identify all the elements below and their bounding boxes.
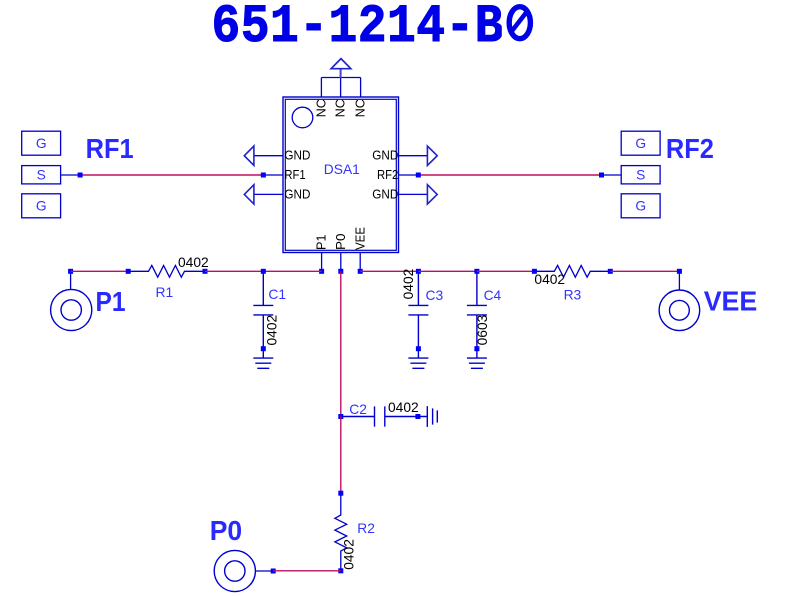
IC DSA1 attenuator body: [283, 97, 399, 253]
junction C1 bottom: [261, 346, 266, 351]
svg-text:0402: 0402: [388, 400, 419, 415]
wire RF2 net (magenta): [418, 174, 601, 176]
resistor R2: [335, 493, 347, 571]
ground right of C2: [418, 406, 437, 427]
pad S (right): [621, 166, 660, 184]
wire RF1 pin lead: [263, 174, 283, 176]
junction R3 right: [608, 269, 613, 274]
capacitor C2: [341, 406, 418, 426]
svg-text:P0: P0: [333, 234, 348, 251]
svg-text:P1: P1: [96, 286, 126, 317]
pin 1 indicator circle: [292, 107, 313, 128]
junction C3 bottom: [416, 346, 421, 351]
svg-text:RF1: RF1: [284, 167, 305, 182]
svg-text:R3: R3: [564, 287, 582, 302]
junction VEE pin: [358, 269, 363, 274]
svg-text:DSA1: DSA1: [324, 162, 360, 177]
junction R1 right: [203, 269, 208, 274]
svg-text:R2: R2: [357, 521, 375, 536]
svg-text:NC: NC: [333, 99, 348, 117]
wire VEE net segment c (magenta): [477, 270, 535, 272]
wire P1 pin stub: [321, 253, 323, 272]
pad G (left bottom): [22, 194, 61, 218]
no-connect port triangle (up): [331, 59, 351, 69]
wire RF2 pin lead: [399, 174, 419, 176]
pad S (left): [22, 166, 61, 184]
wire P1 connector stub: [70, 271, 72, 289]
wire VEE pin stub: [359, 253, 361, 272]
junction C3 top: [416, 269, 421, 274]
wire P1 net segment b (magenta): [205, 270, 263, 272]
svg-text:S: S: [37, 167, 46, 182]
junction RF2 at pin: [416, 173, 421, 178]
junction P1 connector: [68, 269, 73, 274]
svg-text:P1: P1: [314, 235, 329, 251]
svg-text:NC: NC: [313, 99, 328, 117]
resistor R1: [128, 265, 205, 277]
junction P1 pin: [319, 269, 324, 274]
svg-text:VEE: VEE: [704, 286, 758, 317]
svg-text:C1: C1: [268, 287, 286, 302]
junction RF2 at S pad: [599, 173, 604, 178]
connector VEE: [659, 290, 700, 331]
svg-text:651-1214-B0: 651-1214-B0: [212, 0, 534, 58]
ground below C3: [408, 349, 428, 369]
wire RF1 net (magenta): [80, 174, 263, 176]
ground below C4: [467, 349, 487, 369]
wire P0 pin stub: [340, 253, 342, 272]
svg-text:0603: 0603: [475, 314, 490, 345]
junction P0 pin: [338, 269, 343, 274]
svg-text:G: G: [635, 199, 646, 214]
wire VEE net segment d (magenta): [610, 270, 679, 272]
junction C2 right: [415, 414, 420, 419]
svg-text:VEE: VEE: [352, 227, 367, 250]
wire VEE net segment a (magenta): [360, 270, 418, 272]
junction RF1 at S pad: [78, 173, 83, 178]
wire S pad right stub: [602, 174, 622, 176]
svg-text:RF1: RF1: [86, 133, 134, 164]
wire P0 net vertical b (magenta): [340, 417, 342, 494]
svg-text:0402: 0402: [265, 315, 280, 346]
svg-text:0402: 0402: [534, 272, 565, 287]
svg-text:C2: C2: [349, 402, 367, 417]
svg-text:RF2: RF2: [666, 133, 714, 164]
svg-text:GND: GND: [372, 148, 398, 163]
wire P0 net vertical a (magenta): [340, 271, 342, 416]
junction VEE connector: [677, 269, 682, 274]
junction C4 bottom: [474, 346, 479, 351]
svg-text:0402: 0402: [341, 539, 356, 570]
wire GND pin lead right-bottom: [399, 193, 428, 195]
junction P0 connector: [271, 569, 276, 574]
wire P1 net segment a (magenta): [71, 270, 129, 272]
pad G (right top): [621, 131, 660, 155]
resistor R3: [534, 265, 610, 277]
wire S pad left stub: [61, 174, 81, 176]
title 651-1214-B0: [212, 0, 534, 58]
junction C4 top: [474, 269, 479, 274]
connector P0: [214, 550, 255, 591]
svg-text:GND: GND: [284, 186, 310, 201]
svg-text:0402: 0402: [401, 269, 416, 300]
wire P0 net bottom (magenta): [273, 570, 341, 572]
svg-text:P0: P0: [210, 515, 242, 546]
wire VEE net segment b (magenta): [418, 270, 477, 272]
capacitor C4: [467, 271, 487, 348]
svg-text:GND: GND: [284, 148, 310, 163]
svg-text:G: G: [36, 199, 47, 214]
ground below C1: [253, 349, 273, 369]
svg-text:RF2: RF2: [377, 167, 398, 182]
wire NC pin stubs and tie: [321, 78, 360, 98]
capacitor C3: [408, 271, 428, 348]
junction R1 left: [126, 269, 131, 274]
port arrow left-top: [244, 146, 254, 165]
svg-text:S: S: [636, 167, 645, 182]
wire GND pin lead left-top: [254, 155, 283, 157]
svg-text:0402: 0402: [178, 255, 209, 270]
wire VEE connector stub: [678, 271, 680, 290]
capacitor C1: [253, 271, 273, 348]
svg-text:R1: R1: [156, 285, 174, 300]
svg-text:C4: C4: [484, 288, 502, 303]
junction R3 left: [532, 269, 537, 274]
port arrow right-top: [427, 146, 437, 165]
connector P1: [51, 289, 92, 330]
junction R2 bottom: [338, 568, 343, 573]
wire P0 connector stub: [255, 570, 273, 572]
svg-text:G: G: [635, 136, 646, 151]
pad G (right bottom): [621, 194, 660, 218]
wire P1 net segment c (magenta): [263, 270, 321, 272]
wire GND pin lead right-top: [399, 155, 428, 157]
junction C2 left: [338, 414, 343, 419]
svg-text:G: G: [36, 136, 47, 151]
svg-text:NC: NC: [353, 99, 368, 117]
port arrow right-bottom: [427, 185, 437, 204]
junction R2 top: [338, 491, 343, 496]
junction C1 top: [261, 269, 266, 274]
pad G (left top): [22, 131, 61, 155]
wire GND pin lead left-bottom: [254, 193, 283, 195]
svg-text:C3: C3: [426, 288, 444, 303]
svg-text:GND: GND: [372, 186, 398, 201]
junction RF1 at pin: [261, 173, 266, 178]
port arrow left-bottom: [244, 185, 254, 204]
